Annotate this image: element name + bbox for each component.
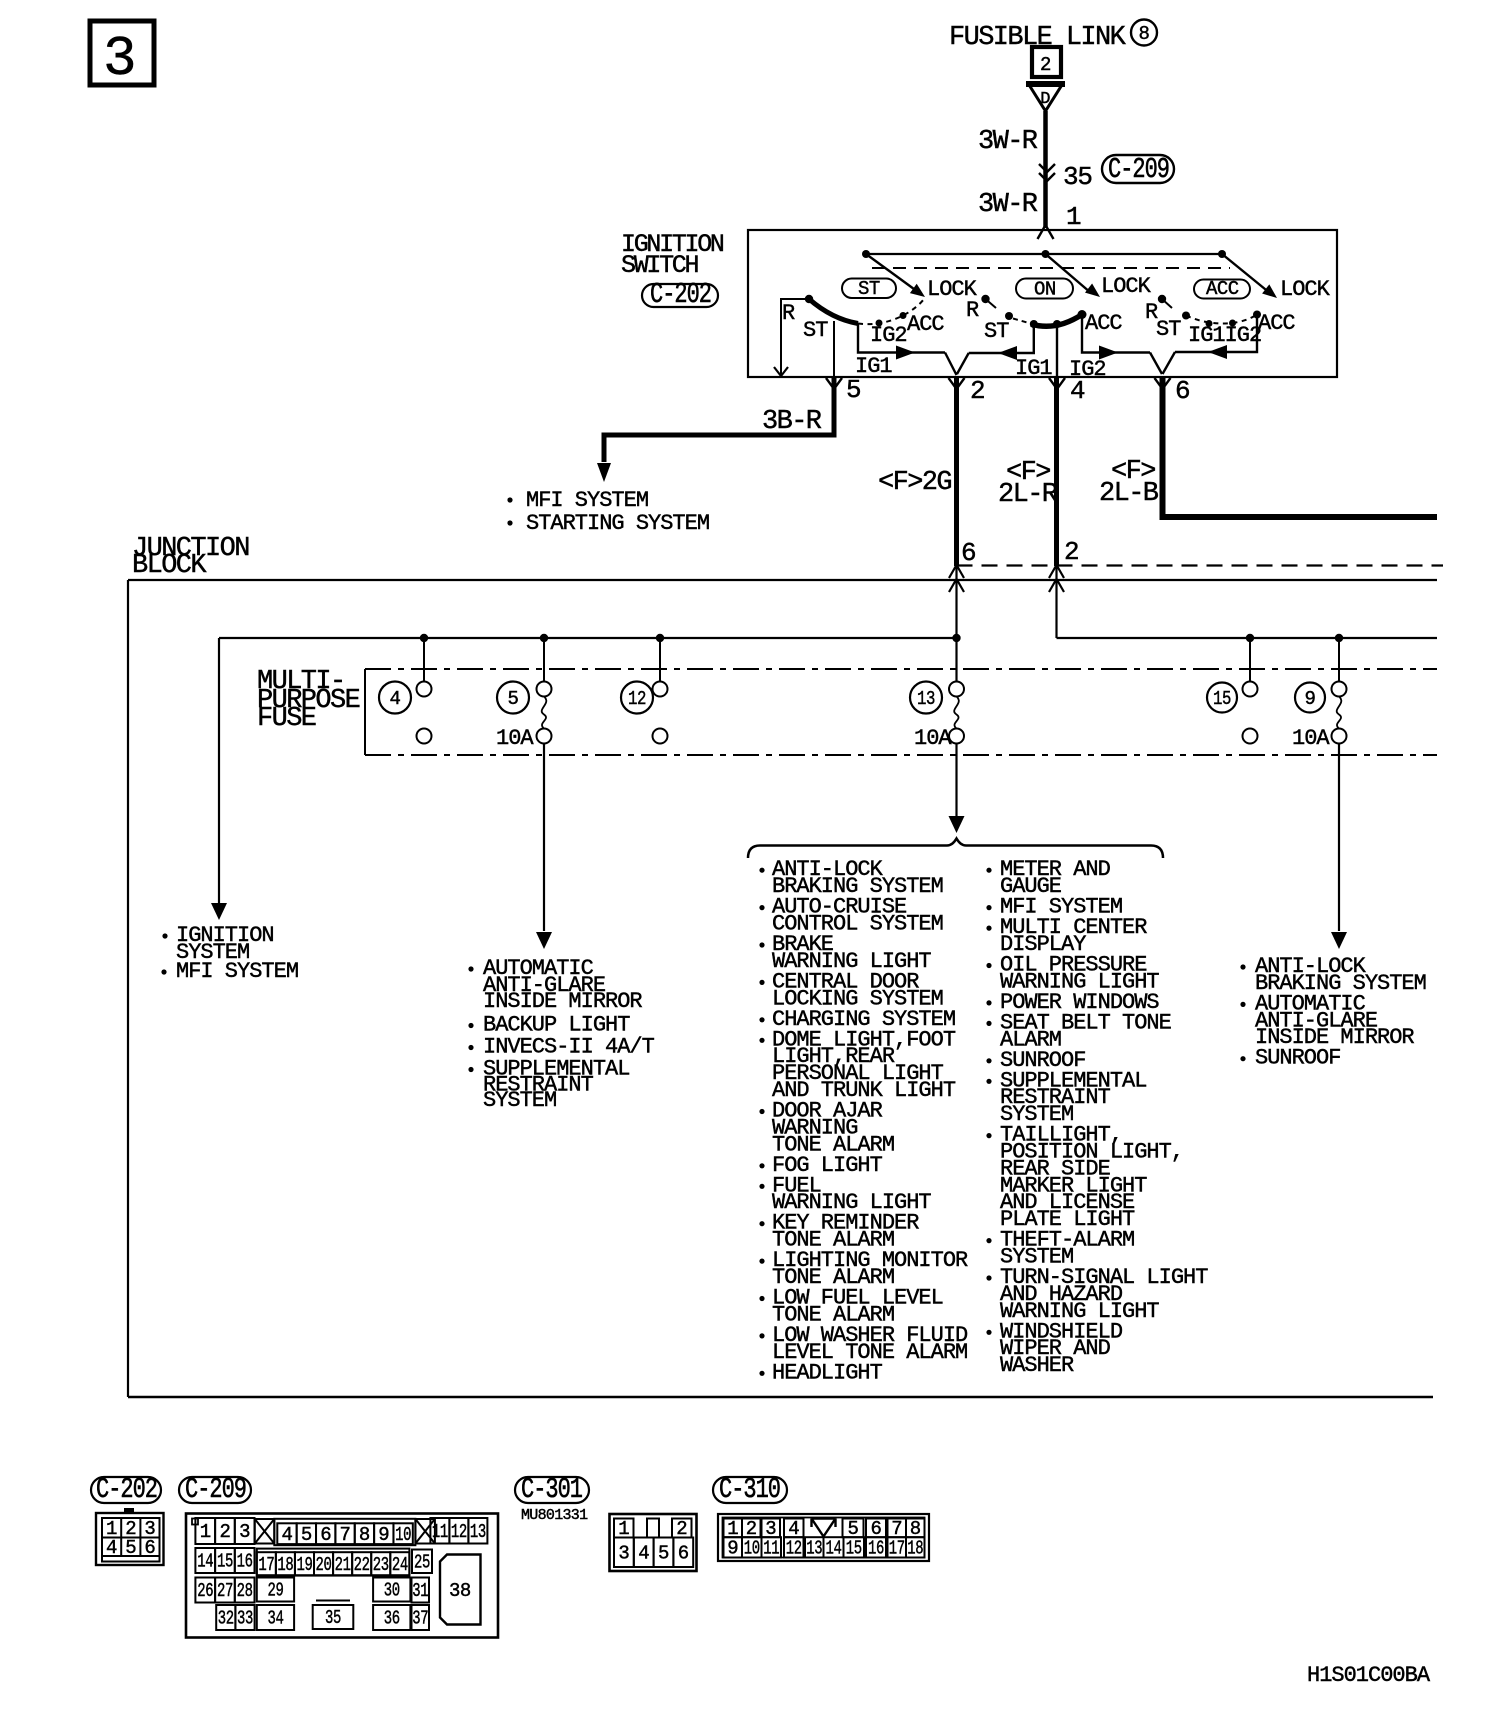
- svg-text:2: 2: [1064, 537, 1078, 567]
- svg-text:2L-B: 2L-B: [1099, 479, 1159, 509]
- svg-text:11: 11: [763, 1538, 779, 1560]
- svg-text:12: 12: [451, 1521, 467, 1543]
- svg-text:HEADLIGHT: HEADLIGHT: [772, 1360, 883, 1385]
- svg-text:5: 5: [658, 1542, 669, 1564]
- svg-text:36: 36: [384, 1608, 400, 1630]
- svg-text:5: 5: [125, 1537, 136, 1559]
- svg-text:5: 5: [301, 1524, 312, 1546]
- svg-text:6: 6: [320, 1524, 331, 1546]
- svg-text:17: 17: [889, 1538, 905, 1560]
- svg-text:14: 14: [197, 1551, 213, 1573]
- svg-text:8: 8: [1139, 23, 1150, 45]
- svg-text:10A: 10A: [1292, 726, 1330, 751]
- svg-text:6: 6: [144, 1537, 155, 1559]
- svg-text:<F>2G: <F>2G: [878, 468, 951, 498]
- svg-text:9: 9: [378, 1524, 389, 1546]
- svg-text:5: 5: [846, 375, 860, 405]
- svg-text:11: 11: [432, 1521, 448, 1543]
- svg-text:10: 10: [744, 1538, 760, 1560]
- svg-text:38: 38: [449, 1580, 471, 1602]
- svg-text:9: 9: [727, 1538, 738, 1560]
- svg-text:INSIDE MIRROR: INSIDE MIRROR: [483, 989, 642, 1014]
- svg-text:2: 2: [219, 1521, 230, 1543]
- svg-text:4: 4: [638, 1542, 649, 1564]
- svg-text:MFI SYSTEM: MFI SYSTEM: [176, 959, 298, 984]
- svg-text:ACC: ACC: [907, 312, 944, 337]
- svg-text:IG1: IG1: [855, 354, 892, 379]
- svg-text:C-209: C-209: [185, 1473, 246, 1506]
- svg-text:22: 22: [354, 1554, 370, 1576]
- svg-text:34: 34: [267, 1608, 283, 1630]
- svg-text:2L-R: 2L-R: [998, 480, 1058, 510]
- svg-text:MU801331: MU801331: [521, 1507, 588, 1524]
- svg-text:D: D: [1040, 90, 1050, 109]
- svg-text:15: 15: [1213, 688, 1231, 710]
- svg-text:IG2: IG2: [870, 323, 907, 348]
- svg-text:SUNROOF: SUNROOF: [1255, 1046, 1340, 1071]
- svg-text:5: 5: [508, 688, 519, 710]
- svg-text:15: 15: [846, 1538, 862, 1560]
- svg-text:1: 1: [200, 1521, 211, 1543]
- svg-text:4: 4: [281, 1524, 292, 1546]
- svg-text:MFI SYSTEM: MFI SYSTEM: [526, 488, 648, 513]
- svg-text:ST: ST: [858, 278, 880, 300]
- svg-text:32: 32: [218, 1608, 234, 1630]
- svg-text:37: 37: [412, 1608, 428, 1630]
- svg-text:4: 4: [390, 688, 401, 710]
- svg-text:3: 3: [103, 27, 137, 91]
- svg-text:10A: 10A: [496, 726, 534, 751]
- svg-text:16: 16: [868, 1538, 884, 1560]
- svg-text:20: 20: [316, 1554, 332, 1576]
- svg-text:16: 16: [237, 1551, 253, 1573]
- svg-text:ST: ST: [1156, 317, 1181, 342]
- svg-text:8: 8: [359, 1524, 370, 1546]
- svg-text:6: 6: [678, 1542, 689, 1564]
- svg-text:2: 2: [970, 376, 984, 406]
- svg-text:C-202: C-202: [650, 278, 711, 311]
- svg-text:C-202: C-202: [96, 1473, 157, 1506]
- svg-text:24: 24: [392, 1554, 408, 1576]
- svg-text:12: 12: [786, 1538, 802, 1560]
- svg-text:19: 19: [296, 1554, 312, 1576]
- svg-text:3W-R: 3W-R: [978, 127, 1038, 157]
- svg-text:9: 9: [1305, 688, 1316, 710]
- svg-text:R: R: [782, 301, 795, 326]
- svg-text:13: 13: [806, 1538, 822, 1560]
- svg-text:17: 17: [258, 1554, 274, 1576]
- svg-text:18: 18: [907, 1538, 923, 1560]
- svg-text:26: 26: [197, 1580, 213, 1602]
- svg-text:R: R: [966, 298, 979, 323]
- svg-text:SWITCH: SWITCH: [621, 251, 699, 280]
- svg-text:STARTING SYSTEM: STARTING SYSTEM: [526, 511, 709, 536]
- svg-text:FUSE: FUSE: [257, 704, 316, 734]
- svg-text:27: 27: [217, 1580, 233, 1602]
- svg-text:2: 2: [1040, 54, 1051, 76]
- svg-text:3W-R: 3W-R: [978, 190, 1038, 220]
- svg-text:35: 35: [1063, 162, 1092, 192]
- svg-text:IG1IG2: IG1IG2: [1188, 323, 1261, 348]
- svg-text:10A: 10A: [914, 726, 952, 751]
- svg-text:C-209: C-209: [1108, 153, 1169, 186]
- svg-text:3B-R: 3B-R: [762, 407, 822, 437]
- svg-text:ACC: ACC: [1206, 278, 1239, 300]
- svg-text:29: 29: [267, 1580, 283, 1602]
- svg-text:LOCK: LOCK: [1280, 277, 1331, 302]
- svg-text:33: 33: [237, 1608, 253, 1630]
- svg-text:13: 13: [470, 1521, 486, 1543]
- svg-text:4: 4: [1070, 376, 1085, 406]
- svg-text:18: 18: [277, 1554, 293, 1576]
- svg-text:14: 14: [826, 1538, 842, 1560]
- svg-text:ON: ON: [1034, 279, 1056, 301]
- svg-text:1: 1: [1066, 202, 1081, 232]
- svg-text:21: 21: [335, 1554, 351, 1576]
- svg-text:28: 28: [237, 1580, 253, 1602]
- svg-text:ST: ST: [984, 319, 1009, 344]
- svg-text:6: 6: [1175, 376, 1189, 406]
- svg-text:IG1: IG1: [1015, 356, 1052, 381]
- svg-text:13: 13: [917, 688, 935, 710]
- svg-text:ACC: ACC: [1085, 311, 1122, 336]
- svg-text:15: 15: [217, 1551, 233, 1573]
- svg-text:H1S01C00BA: H1S01C00BA: [1307, 1663, 1431, 1688]
- svg-text:4: 4: [106, 1537, 117, 1559]
- svg-text:ACC: ACC: [1258, 311, 1295, 336]
- svg-text:7: 7: [340, 1524, 351, 1546]
- svg-text:3: 3: [618, 1542, 629, 1564]
- svg-text:30: 30: [384, 1580, 400, 1602]
- svg-text:10: 10: [395, 1524, 411, 1546]
- svg-text:WASHER: WASHER: [1000, 1353, 1074, 1378]
- svg-text:ST: ST: [803, 318, 828, 343]
- svg-text:31: 31: [412, 1580, 428, 1602]
- svg-text:35: 35: [325, 1607, 341, 1629]
- svg-text:C-310: C-310: [719, 1473, 780, 1506]
- svg-text:LOCK: LOCK: [1101, 274, 1152, 299]
- svg-text:BLOCK: BLOCK: [132, 551, 207, 581]
- svg-text:25: 25: [414, 1551, 430, 1573]
- svg-text:23: 23: [373, 1554, 389, 1576]
- svg-text:SYSTEM: SYSTEM: [483, 1088, 556, 1113]
- svg-text:6: 6: [961, 538, 975, 568]
- svg-text:C-301: C-301: [521, 1473, 583, 1506]
- svg-text:3: 3: [239, 1521, 250, 1543]
- svg-text:12: 12: [628, 688, 646, 710]
